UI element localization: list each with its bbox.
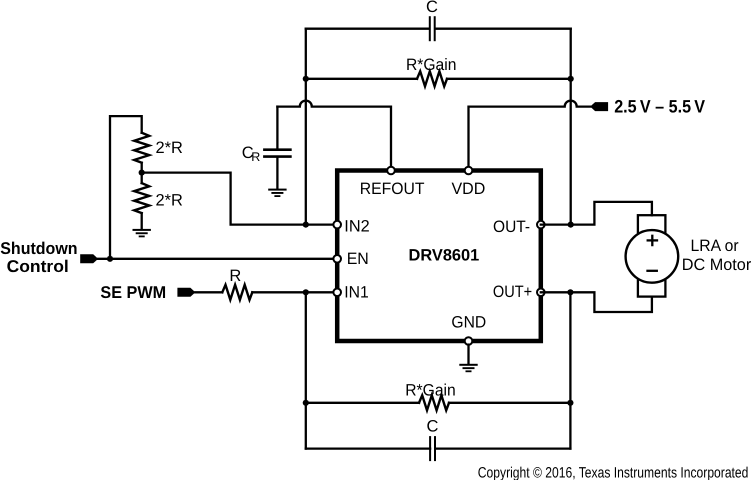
svg-text:2.5 V – 5.5 V: 2.5 V – 5.5 V bbox=[614, 97, 705, 117]
label LRA or DC Motor bbox=[682, 237, 751, 274]
svg-text:REFOUT: REFOUT bbox=[360, 180, 425, 198]
wire left feedback trunk bbox=[305, 29, 307, 225]
svg-text:SE PWM: SE PWM bbox=[100, 283, 166, 302]
wire REFOUT to CR with hop over left trunk bbox=[277, 101, 391, 171]
wire left bottom trunk bbox=[305, 292, 307, 448]
wire GND pin to ground bbox=[467, 345, 469, 364]
wire bottom C line left segment bbox=[306, 447, 430, 449]
junction dot left trunk / IN2 wire bbox=[303, 222, 309, 228]
svg-text:2*R: 2*R bbox=[156, 191, 183, 209]
ground (divider) bbox=[133, 229, 151, 237]
junction dot right trunk / OUT- wire bbox=[568, 222, 574, 228]
motor terminal block top bbox=[638, 215, 666, 239]
capacitor C (bottom) bbox=[430, 437, 435, 460]
wire top R*Gain line right segment bbox=[447, 78, 571, 80]
motor terminal block bottom bbox=[638, 274, 666, 297]
junction dot shutdown / divider trunk bbox=[107, 256, 113, 262]
net label Shutdown Control bbox=[0, 239, 77, 276]
pin REFOUT bbox=[387, 167, 395, 175]
svg-text:EN: EN bbox=[347, 250, 369, 268]
wire bottom R*Gain line right segment bbox=[449, 402, 570, 404]
motor M1 body bbox=[626, 230, 679, 283]
resistor 2*R lower bbox=[134, 183, 149, 213]
IC U1 DRV8601 bbox=[337, 171, 541, 342]
wire 2*R lower to ground bbox=[141, 213, 143, 229]
svg-text:R*Gain: R*Gain bbox=[405, 381, 456, 399]
wire between 2*R resistors bbox=[141, 163, 143, 183]
svg-text:R: R bbox=[251, 150, 260, 164]
junction dot left trunk / R*Gain bbox=[303, 76, 309, 82]
motor plus mark bbox=[648, 236, 657, 245]
junction dot OUT+ / right bottom trunk bbox=[567, 289, 573, 295]
svg-text:LRA or: LRA or bbox=[691, 237, 740, 255]
svg-text:C: C bbox=[426, 0, 438, 16]
wire OUT- to motor top bbox=[541, 202, 652, 225]
wire top feedback C line left segment bbox=[306, 28, 429, 30]
pin IN2 bbox=[333, 221, 341, 229]
svg-text:DRV8601: DRV8601 bbox=[409, 247, 480, 265]
wire VDD to supply with hop over right trunk bbox=[469, 101, 592, 171]
svg-text:GND: GND bbox=[451, 314, 486, 332]
resistor R bbox=[222, 285, 252, 300]
junction dot right trunk / R*Gain bbox=[568, 76, 574, 82]
resistor 2*R upper bbox=[134, 133, 149, 163]
wire SE PWM to resistor R bbox=[194, 291, 222, 293]
junction dot IN1 / bottom trunk bbox=[303, 289, 309, 295]
wire divider midpoint to IN2 bbox=[142, 173, 338, 225]
wire bottom C line right segment bbox=[436, 447, 570, 449]
svg-text:IN2: IN2 bbox=[344, 217, 369, 235]
motor minus mark bbox=[648, 270, 657, 272]
svg-text:OUT-: OUT- bbox=[493, 218, 530, 236]
junction dot divider midpoint bbox=[139, 170, 145, 176]
terminal flag supply bbox=[592, 102, 609, 111]
svg-text:Shutdown: Shutdown bbox=[0, 239, 77, 258]
wire right feedback trunk bbox=[570, 29, 572, 225]
svg-text:R*Gain: R*Gain bbox=[406, 56, 457, 74]
wire CR cap top stem bbox=[276, 107, 278, 149]
svg-text:IN1: IN1 bbox=[344, 284, 369, 302]
pin VDD bbox=[465, 167, 473, 175]
junction dot right bottom trunk / R*Gain bottom bbox=[567, 400, 573, 406]
svg-text:R: R bbox=[229, 267, 241, 285]
svg-text:OUT+: OUT+ bbox=[493, 283, 532, 301]
svg-text:Control: Control bbox=[7, 257, 69, 276]
svg-text:2*R: 2*R bbox=[156, 139, 183, 157]
resistor R*Gain (bottom) bbox=[419, 395, 449, 410]
resistor R*Gain (top) bbox=[417, 71, 447, 86]
terminal flag SE PWM bbox=[177, 288, 194, 297]
capacitor CR bbox=[264, 150, 290, 157]
wire Shutdown Control to EN bbox=[97, 258, 338, 260]
terminal flag Shutdown Control bbox=[80, 254, 97, 263]
pin OUT+ bbox=[537, 289, 545, 297]
wire top R*Gain line left segment bbox=[306, 78, 417, 80]
wire OUT+ to motor bottom bbox=[541, 292, 652, 312]
wire right bottom trunk bbox=[569, 292, 571, 448]
svg-text:VDD: VDD bbox=[452, 180, 486, 198]
pin IN1 bbox=[333, 289, 341, 297]
wire bottom R*Gain line left segment bbox=[306, 402, 419, 404]
ground (IC GND) bbox=[459, 364, 477, 372]
value label CR bbox=[242, 144, 261, 164]
wire top feedback C line right segment bbox=[436, 28, 571, 30]
wire CR cap bottom stem bbox=[276, 158, 278, 189]
svg-text:C: C bbox=[426, 418, 438, 436]
svg-text:Copyright © 2016, Texas Instru: Copyright © 2016, Texas Instruments Inco… bbox=[478, 464, 749, 480]
pin GND bbox=[465, 337, 473, 345]
junction dot left bottom trunk / R*Gain bottom bbox=[303, 400, 309, 406]
pin EN bbox=[333, 255, 341, 263]
pin OUT- bbox=[537, 221, 545, 229]
ground (CR) bbox=[268, 189, 286, 197]
wire divider top bridge bbox=[110, 116, 142, 259]
svg-text:DC Motor: DC Motor bbox=[682, 256, 751, 274]
wire resistor R to IN1 bbox=[252, 291, 337, 293]
capacitor C (top) bbox=[430, 17, 435, 40]
